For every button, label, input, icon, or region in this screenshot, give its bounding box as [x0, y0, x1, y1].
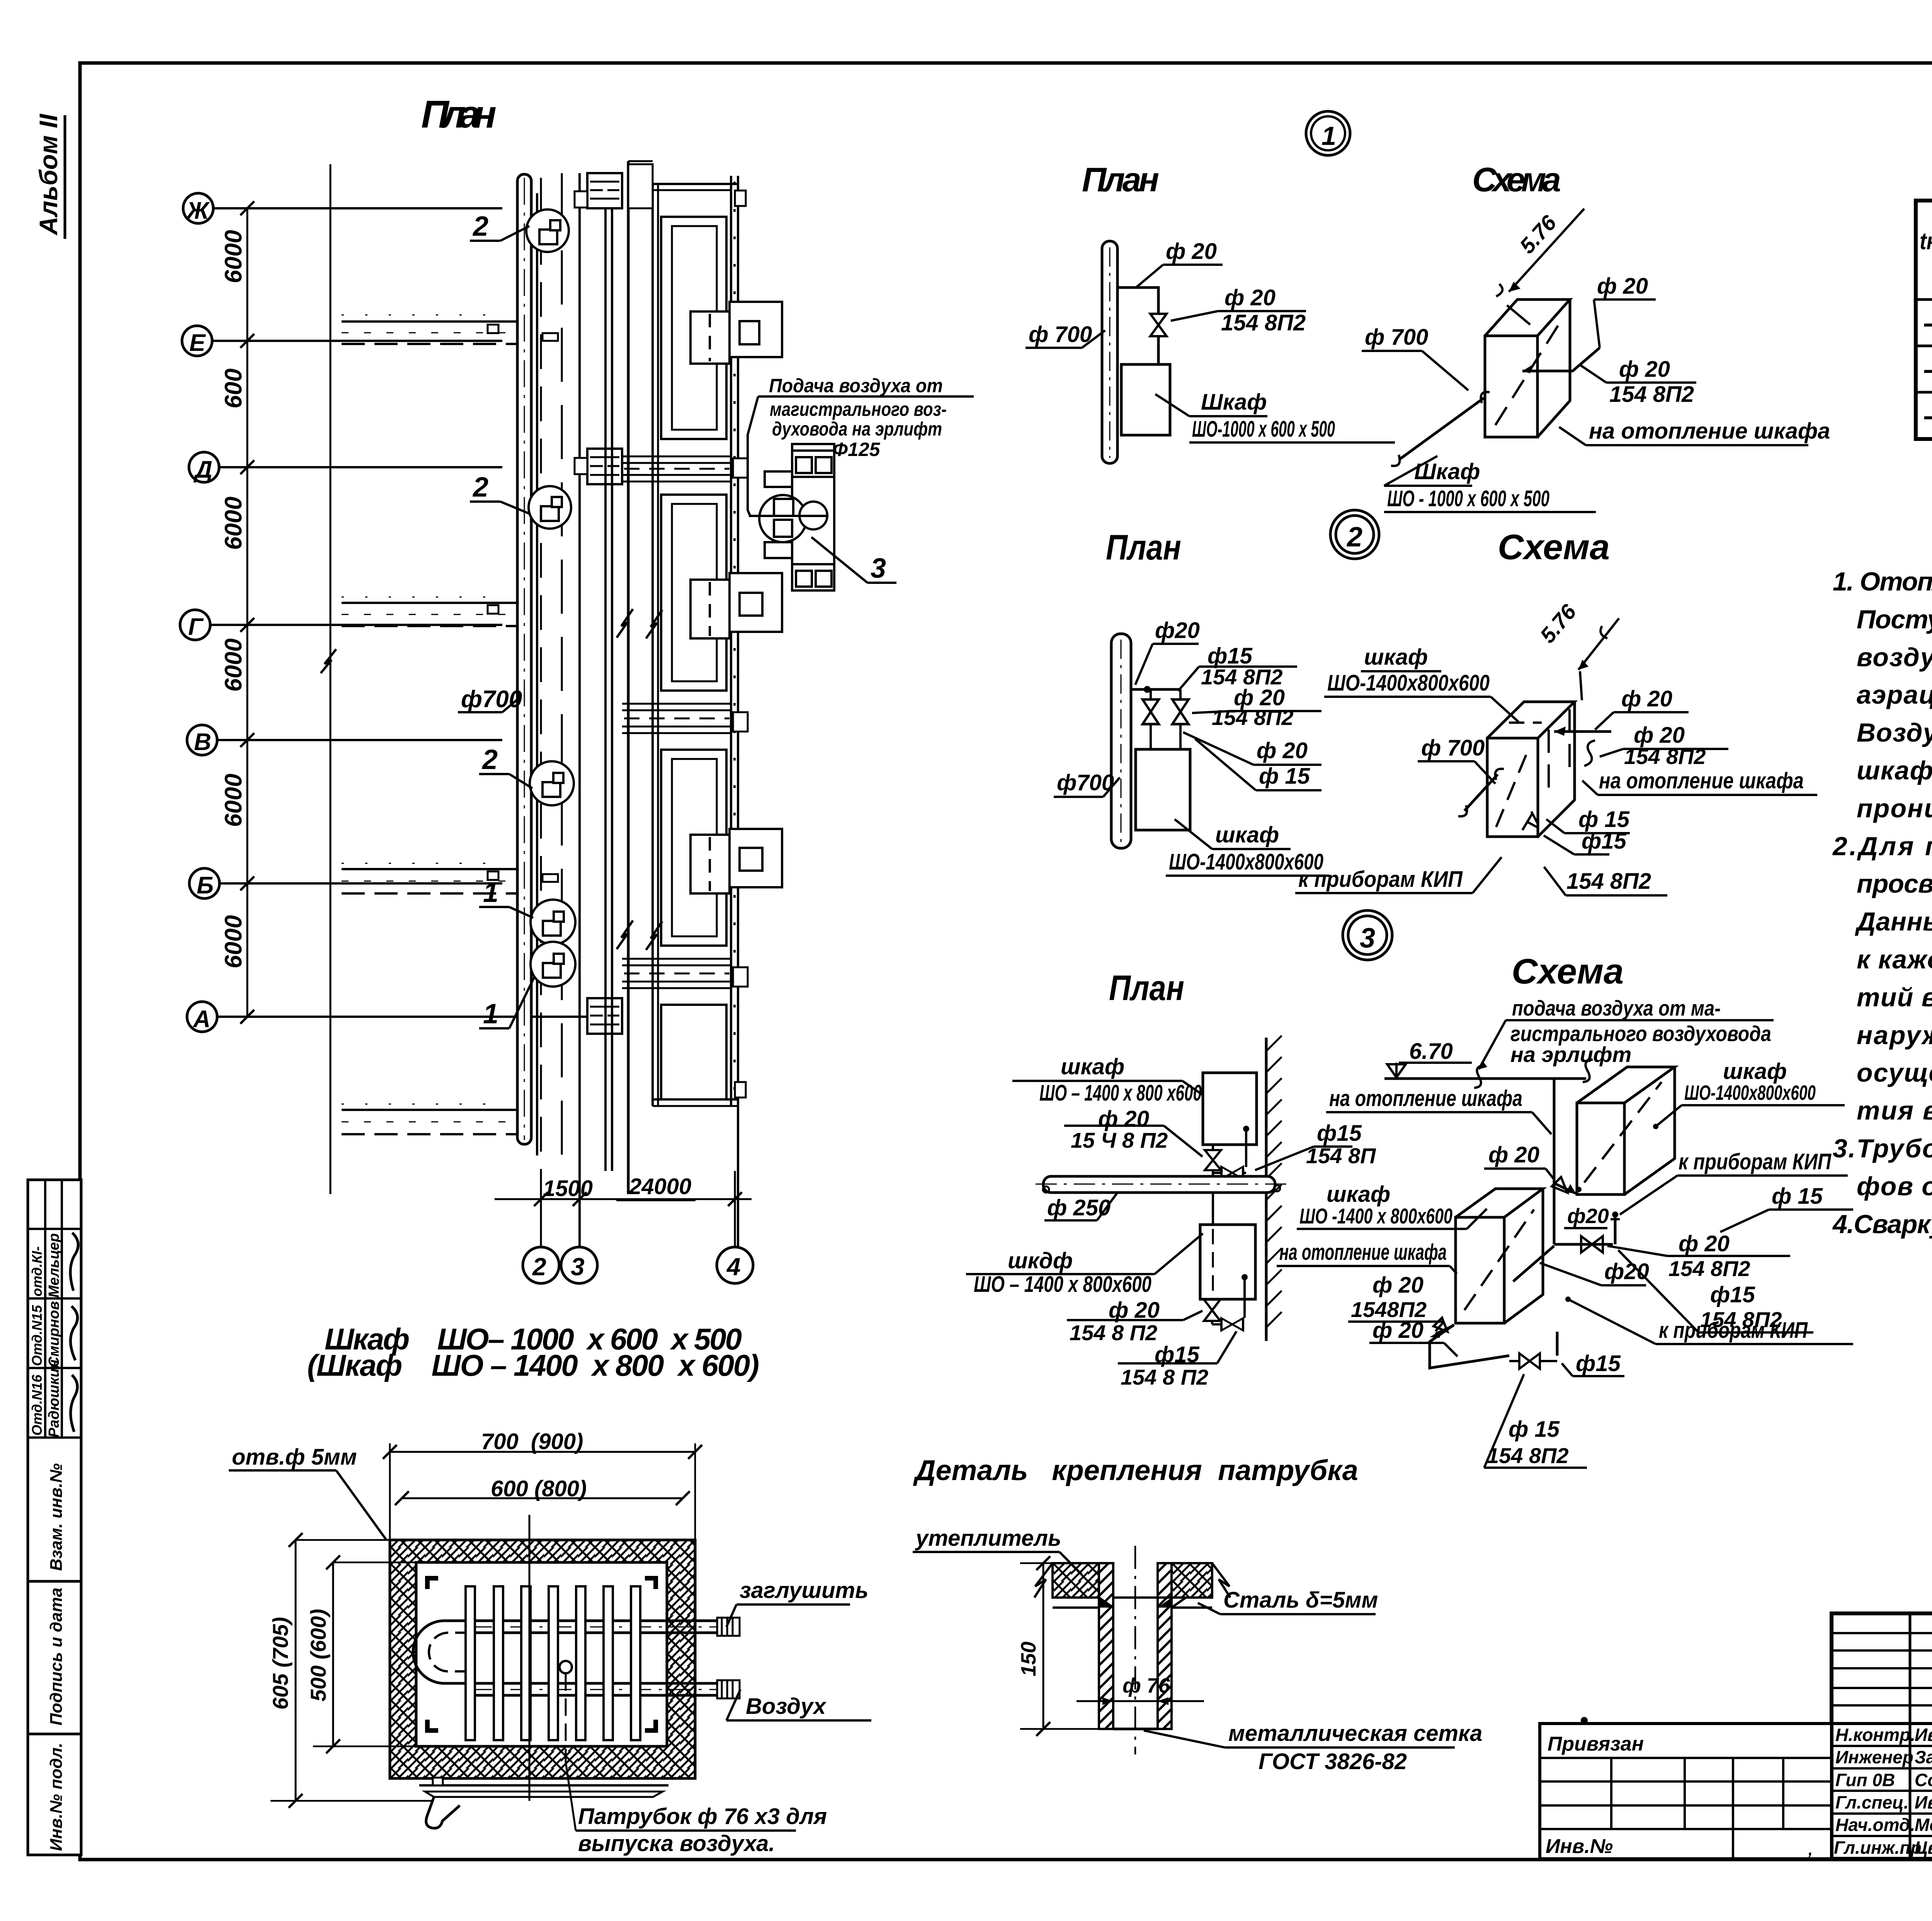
callout circle 2 middle	[529, 486, 571, 529]
svg-text:ф 20: ф 20	[1372, 1273, 1423, 1298]
duct strip hatched box lower	[587, 998, 622, 1034]
svg-text:Подача воздуха от: Подача воздуха от	[769, 375, 943, 396]
svg-text:Данные по количеству воздуха: Данные по количеству воздуха, который сл…	[1855, 907, 1932, 936]
privyazan columns	[1611, 1758, 1783, 1859]
svg-text:к приборам КИП: к приборам КИП	[1679, 1149, 1832, 1174]
svg-text:154 8П2: 154 8П2	[1487, 1443, 1569, 1468]
svg-text:ф15: ф15	[1576, 1351, 1621, 1376]
corridor bottom closure	[653, 1098, 738, 1101]
heater fins	[466, 1586, 640, 1740]
svg-text:ф 20: ф 20	[1225, 285, 1276, 310]
break mark on wall line at 1700	[321, 649, 336, 673]
airlift left tab lower	[765, 542, 792, 558]
svg-text:шкафа подпор, что обеспечив: шкафа подпор, что обеспечивает защиту ар…	[1857, 756, 1932, 785]
big section divider	[1832, 1722, 1932, 1725]
airlift top cell pair	[792, 451, 834, 477]
pipe left wall hatched	[1099, 1563, 1113, 1729]
center axis vertical	[529, 1515, 531, 1801]
axis row Д line	[219, 466, 502, 468]
node1 cabinet	[1121, 364, 1170, 435]
rail band row Б	[342, 863, 520, 893]
svg-text:Б: Б	[197, 872, 214, 899]
small tab rect left of top hatch box	[575, 191, 587, 208]
svg-text:просверлить отверстия ф 5мм: просверлить отверстия ф 5мм.	[1857, 869, 1932, 898]
airlift inner circle	[799, 502, 827, 529]
axis row Д circle	[189, 452, 219, 482]
left part columns	[1909, 1613, 1912, 1859]
svg-text:2: 2	[481, 744, 498, 775]
svg-text:ф 20: ф 20	[1166, 239, 1217, 264]
svg-text:Отд.N16: Отд.N16	[29, 1374, 45, 1436]
slab break zigzag right	[1212, 1563, 1230, 1598]
svg-text:2: 2	[472, 472, 488, 503]
svg-text:шкаф: шкаф	[1364, 645, 1428, 670]
callout circle 1 upper	[531, 900, 575, 944]
svg-text:аэрацию сточных вод.: аэрацию сточных вод.	[1857, 680, 1932, 710]
svg-text:шкаф: шкаф	[1327, 1182, 1390, 1207]
svg-text:осуществляется через патруб: осуществляется через патрубок в дне шкаф…	[1857, 1058, 1932, 1087]
svg-text:В: В	[194, 729, 211, 755]
aeration tank 4 partial	[661, 1005, 726, 1099]
plan3 side bowtie lower	[1211, 1321, 1213, 1324]
thin wall line left vertical	[330, 164, 332, 1194]
privyazan sub-table	[1540, 1724, 1832, 1859]
signature labels column	[1834, 1725, 1932, 1858]
svg-text:ф 15: ф 15	[1509, 1417, 1560, 1442]
svg-text:2: 2	[472, 211, 488, 242]
airlift bottom cells	[792, 564, 834, 590]
dim ticks	[534, 1192, 742, 1206]
svg-text:Молчанов: Молчанов	[1915, 1815, 1932, 1835]
svg-text:ГОСТ 3826-82: ГОСТ 3826-82	[1259, 1749, 1407, 1774]
svg-text:600: 600	[220, 369, 247, 408]
svg-text:тий в конвекторе при разны: тий в конвекторе при разных расчетных те…	[1857, 983, 1932, 1012]
svg-text:700 (900): 700 (900)	[481, 1429, 583, 1454]
svg-text:6000: 6000	[220, 230, 247, 283]
node 1 marker circle	[1306, 111, 1350, 155]
svg-text:Схема: Схема	[1498, 527, 1610, 567]
table outer border	[1916, 201, 1932, 439]
svg-text:Шкаф: Шкаф	[1201, 390, 1267, 415]
svg-text:Подпись и дата: Подпись и дата	[47, 1588, 66, 1725]
duct strip hatched box middle	[587, 449, 622, 484]
dots along right wall	[733, 182, 736, 1105]
schema2 kip barb at box bottom	[1522, 812, 1538, 830]
svg-text:воздуховода секции аэротен: воздуховода секции аэротенка, подающего …	[1857, 643, 1932, 672]
svg-text:24000: 24000	[629, 1174, 691, 1199]
svg-text:Гип 0В: Гип 0В	[1835, 1770, 1895, 1790]
aeration tank 2	[661, 495, 726, 691]
schema2 duct diagonal with breaks	[1464, 774, 1498, 811]
pipe centerline dash-dot	[524, 178, 525, 1140]
svg-text:Смирнов: Смирнов	[46, 1301, 62, 1367]
node2 schema box	[1487, 702, 1575, 837]
svg-text:Соколова: Соколова	[1915, 1770, 1932, 1790]
axis row В line	[217, 739, 502, 741]
svg-text:заглушить: заглушить	[740, 1578, 868, 1603]
svg-text:5.76: 5.76	[1535, 599, 1581, 648]
schema3 box2	[1456, 1189, 1543, 1323]
signature rows	[1832, 1746, 1932, 1836]
attribute table top sub-table rows	[28, 1180, 81, 1438]
callout circle 2 lower (row В)	[530, 761, 574, 805]
axis row Г circle	[180, 610, 210, 640]
slab break zigzag left	[1034, 1563, 1053, 1598]
latch lever	[426, 1797, 460, 1828]
svg-text:154 8 П2: 154 8 П2	[1070, 1320, 1157, 1345]
svg-text:на отопление шкафа: на отопление шкафа	[1279, 1240, 1447, 1265]
privyazan rows	[1540, 1758, 1832, 1829]
bottom axis 4 line	[734, 1171, 736, 1247]
svg-text:ф 15: ф 15	[1259, 764, 1310, 789]
bottom dimension line	[495, 1198, 752, 1200]
svg-text:2: 2	[1346, 522, 1362, 553]
schema3 bottom duct valve	[1519, 1353, 1540, 1369]
svg-text:тия в конвекторе разместит: тия в конвекторе разместить равномерно п…	[1857, 1096, 1932, 1125]
svg-text:отв.ф 5мм: отв.ф 5мм	[232, 1445, 357, 1470]
svg-text:1. Отопление шкафов кип - в: 1. Отопление шкафов кип - воздушное (tвн…	[1833, 567, 1932, 596]
svg-text:Д: Д	[193, 456, 213, 483]
svg-text:отд.КI-: отд.КI-	[29, 1246, 45, 1297]
svg-text:Деталь крепления патрубка: Деталь крепления патрубка	[913, 1454, 1358, 1486]
svg-text:Инв.№: Инв.№	[1546, 1835, 1613, 1858]
svg-text:Иванов: Иванов	[1915, 1725, 1932, 1745]
svg-text:Схема: Схема	[1512, 952, 1624, 991]
node2 valve left	[1150, 689, 1152, 699]
svg-text:выпуска воздуха.: выпуска воздуха.	[578, 1831, 775, 1856]
svg-text:Патрубок ф 76 x3 для: Патрубок ф 76 x3 для	[578, 1804, 827, 1829]
wall long-dash line	[561, 173, 563, 1171]
pipe centerline	[1134, 1546, 1136, 1754]
svg-text:к каждому шкафу для его об: к каждому шкафу для его обогрева, и коли…	[1857, 945, 1932, 974]
svg-text:– 40: – 40	[1923, 306, 1932, 340]
cabinet outer hatched shell	[390, 1540, 695, 1778]
svg-text:1: 1	[1321, 121, 1336, 151]
svg-text:ШО-1000 x 600 x 500: ШО-1000 x 600 x 500	[1192, 417, 1335, 442]
plan3 wall with hatching	[1265, 1038, 1268, 1341]
svg-text:(Шкаф ШО – 1400 x 800 x 6: (Шкаф ШО – 1400 x 800 x 600)	[307, 1348, 759, 1382]
break marks on center walls upper	[617, 609, 633, 638]
phi700 vertical air main pipe	[517, 174, 531, 1144]
vertical dimension chain line	[247, 208, 248, 1017]
node 3 marker circle	[1343, 910, 1392, 960]
title block outer	[1832, 1613, 1932, 1859]
wall line solid near pipe	[536, 193, 538, 1155]
svg-text:утеплитель: утеплитель	[915, 1526, 1061, 1551]
svg-text:ф700: ф700	[1057, 770, 1114, 795]
heater bottom pipe	[471, 1682, 717, 1685]
svg-text:154 8П2: 154 8П2	[1566, 869, 1651, 894]
svg-text:Инженер: Инженер	[1835, 1747, 1913, 1767]
svg-text:154 8 П2: 154 8 П2	[1121, 1365, 1208, 1389]
node2 valve right	[1179, 689, 1182, 699]
svg-text:Радюшкин: Радюшкин	[46, 1360, 62, 1438]
svg-text:к приборам КИП: к приборам КИП	[1298, 867, 1463, 892]
svg-text:Гл.инж.пр.: Гл.инж.пр.	[1834, 1838, 1926, 1858]
svg-text:Альбом II: Альбом II	[34, 113, 63, 236]
svg-text:ф 700: ф 700	[1029, 322, 1092, 347]
svg-text:Воздух, поступающий для от: Воздух, поступающий для отопления, созда…	[1857, 718, 1932, 747]
callout circle 1 lower	[531, 942, 575, 987]
svg-text:ф 20: ф 20	[1621, 686, 1672, 711]
svg-text:ШО – 1400 x 800 x600: ШО – 1400 x 800 x600	[1039, 1080, 1202, 1106]
bracket assembly 2 on right wall	[690, 573, 782, 638]
svg-text:на отопление шкафа: на отопление шкафа	[1599, 768, 1804, 793]
bracket assembly 1 on right wall	[690, 302, 782, 364]
svg-text:План: План	[1106, 528, 1181, 567]
cross band 2	[622, 704, 748, 733]
svg-text:4: 4	[726, 1253, 741, 1281]
svg-text:магистрального воз-: магистрального воз-	[770, 398, 947, 420]
schema1 dashed diagonals	[1495, 321, 1561, 425]
steel plate under slab	[1053, 1598, 1212, 1608]
svg-text:3: 3	[871, 553, 886, 584]
svg-text:,: ,	[1808, 1841, 1813, 1858]
svg-text:5.76: 5.76	[1515, 210, 1561, 258]
svg-text:металлическая сетка: металлическая сетка	[1228, 1721, 1482, 1746]
svg-text:Воздух: Воздух	[746, 1694, 827, 1719]
table row lines	[1916, 255, 1932, 392]
svg-text:на отопление шкафа: на отопление шкафа	[1589, 419, 1830, 444]
heater top pipe	[471, 1620, 717, 1622]
left part top rows	[1832, 1633, 1932, 1705]
threaded pipe tips	[717, 1618, 740, 1698]
plan3 pipe f250	[1043, 1176, 1275, 1193]
svg-text:ф 20: ф 20	[1257, 738, 1308, 763]
svg-text:ф20: ф20	[1155, 618, 1200, 643]
svg-text:ф 20: ф 20	[1597, 274, 1648, 299]
svg-text:ф15: ф15	[1710, 1282, 1755, 1307]
svg-text:6.70: 6.70	[1409, 1039, 1453, 1064]
small tab rect left of middle hatch box	[575, 458, 587, 474]
plan3 valve under cabinet1	[1212, 1145, 1214, 1151]
rail band row Е	[342, 315, 520, 344]
svg-text:шкаф: шкаф	[1061, 1054, 1124, 1079]
rail band row А	[342, 1104, 520, 1134]
svg-text:ШО – 1400 x 800x600: ШО – 1400 x 800x600	[974, 1272, 1151, 1297]
svg-text:ф 700: ф 700	[1365, 325, 1428, 350]
axis row Е circle	[182, 326, 212, 356]
svg-text:Ф125: Ф125	[833, 439, 881, 460]
svg-text:ф15: ф15	[1317, 1121, 1362, 1146]
svg-text:ф 20: ф 20	[1619, 357, 1670, 382]
dim ticks on axis rows	[240, 201, 254, 1024]
pipe right wall hatched	[1158, 1563, 1172, 1729]
second wall pair line a	[604, 208, 607, 1171]
svg-text:Мельцер: Мельцер	[46, 1233, 62, 1298]
svg-text:Г: Г	[188, 614, 204, 640]
aeration tank 3	[661, 750, 726, 946]
signatures squiggles	[70, 1233, 78, 1291]
break marks on center walls lower	[617, 921, 633, 949]
node 2 marker circle	[1330, 510, 1379, 559]
plan3 f15 branch bowtie	[1213, 1172, 1221, 1174]
schema3 box1	[1577, 1067, 1675, 1194]
schema2 dashed diagonal	[1496, 749, 1529, 827]
svg-text:Инв.№ подл.: Инв.№ подл.	[47, 1743, 66, 1851]
axis row А circle	[187, 1002, 217, 1032]
svg-text:ф 700: ф 700	[1421, 735, 1485, 761]
svg-text:А: А	[192, 1006, 211, 1033]
svg-text:ф 20: ф 20	[1679, 1231, 1730, 1256]
svg-text:ШО-1400х800х600: ШО-1400х800х600	[1327, 670, 1490, 696]
axis row Е line	[212, 340, 502, 342]
svg-text:Взам. инв.№: Взам. инв.№	[47, 1463, 66, 1571]
schema3 pipe to box1 bottom	[1554, 1243, 1613, 1246]
svg-text:Е: Е	[189, 330, 206, 356]
svg-text:Привязан: Привязан	[1548, 1733, 1644, 1755]
svg-text:ф15: ф15	[1582, 829, 1627, 854]
bottom axis 2 line	[540, 1171, 542, 1247]
svg-text:605 (705): 605 (705)	[268, 1617, 293, 1710]
heater U tube	[413, 1621, 471, 1683]
cross band 3	[622, 959, 748, 988]
inner corner clips	[425, 1576, 438, 1589]
second wall pair line b	[611, 208, 613, 1171]
svg-text:–30: –30	[1923, 352, 1932, 386]
cross band 1	[622, 456, 748, 482]
svg-text:фов окрасить масляной крас: фов окрасить масляной краской за 2 раза.	[1857, 1172, 1932, 1201]
axis circle 3	[561, 1247, 597, 1283]
schema2 break mark on right face	[1584, 740, 1595, 766]
svg-text:154 8П2: 154 8П2	[1221, 310, 1306, 335]
svg-text:15 Ч 8 П2: 15 Ч 8 П2	[1071, 1128, 1168, 1152]
bottom tray lines	[419, 1784, 668, 1787]
pipe bottom mesh line	[1113, 1728, 1158, 1730]
node2 cabinet	[1136, 749, 1190, 830]
svg-text:Отд.N15: Отд.N15	[29, 1305, 45, 1366]
schema3 diagonal pipe from main to box2	[1513, 1246, 1554, 1281]
svg-text:ШО - 1000 x 600 x 500: ШО - 1000 x 600 x 500	[1387, 486, 1549, 511]
axis row Ж circle	[183, 193, 213, 223]
svg-text:3: 3	[1360, 923, 1375, 954]
svg-text:2: 2	[532, 1253, 546, 1281]
schema3 angle valve on box2 left bottom	[1435, 1325, 1454, 1334]
node1 branch pipe	[1117, 288, 1158, 314]
svg-text:на отопление шкафа: на отопление шкафа	[1329, 1086, 1522, 1111]
svg-text:Поступление воздуха осуществ: Поступление воздуха осуществляется от ма…	[1857, 605, 1932, 634]
svg-text:ф20: ф20	[1567, 1205, 1609, 1228]
head box between walls	[628, 164, 653, 208]
wall solid line (axis 3)	[578, 173, 581, 1247]
svg-text:шкдф: шкдф	[1008, 1248, 1073, 1273]
schema3 angle valve into box1	[1554, 1183, 1576, 1193]
plan3 cabinet2	[1200, 1225, 1255, 1299]
port circle with leader	[560, 1661, 572, 1673]
small tab near row Е	[543, 333, 558, 341]
data row -20	[1923, 398, 1932, 432]
svg-text:–20: –20	[1923, 398, 1932, 432]
node1 schema box	[1485, 299, 1570, 437]
weld triangles	[1099, 1598, 1113, 1608]
axis row А line	[217, 1016, 603, 1018]
svg-text:План: План	[421, 93, 497, 136]
axis row Б line	[219, 882, 502, 885]
svg-text:План: План	[1109, 968, 1184, 1008]
svg-text:Захарова: Захарова	[1915, 1747, 1932, 1767]
svg-text:Иванов: Иванов	[1915, 1792, 1932, 1812]
svg-text:к приборам КИП: к приборам КИП	[1659, 1318, 1808, 1343]
schema3 top pipe line with breaks	[1384, 1077, 1586, 1080]
svg-text:6000: 6000	[220, 774, 247, 827]
svg-text:подача воздуха от ма-: подача воздуха от ма-	[1512, 996, 1721, 1020]
schema1 pipe out right	[1522, 348, 1600, 371]
svg-text:ф 15: ф 15	[1772, 1184, 1823, 1209]
svg-text:ф 20: ф 20	[1372, 1318, 1423, 1343]
bottom axis 3 line	[579, 1171, 581, 1247]
svg-text:2.Для подачи воздуха в шка: 2.Для подачи воздуха в шкаф, в конвектор…	[1832, 832, 1932, 861]
svg-text:проникновения влаги внутрь.: проникновения влаги внутрь.	[1857, 794, 1932, 823]
section divider lines	[28, 1580, 81, 1583]
axis row Ж line	[213, 207, 502, 209]
plan3 valve under cabinet2	[1211, 1299, 1213, 1300]
svg-text:6000: 6000	[220, 497, 247, 550]
svg-text:154 8П2: 154 8П2	[1609, 382, 1694, 407]
center dividing wall	[627, 161, 630, 1194]
svg-text:Н.контр.: Н.контр.	[1835, 1725, 1915, 1745]
axis row В circle	[187, 725, 217, 755]
schema3 bottom duct	[1430, 1325, 1509, 1368]
svg-text:шкаф: шкаф	[1215, 822, 1279, 847]
schema2 inner niche on right face	[1549, 709, 1570, 791]
cabinet inner box	[416, 1562, 667, 1746]
svg-text:6000: 6000	[220, 638, 247, 692]
svg-text:500 (600): 500 (600)	[306, 1609, 330, 1702]
airlift big circle	[759, 495, 806, 542]
album underline	[64, 115, 66, 239]
axis circle 2	[523, 1247, 559, 1283]
callout circle 2 top	[526, 209, 569, 252]
svg-text:ф 20: ф 20	[1488, 1142, 1539, 1167]
axis row Г line	[210, 624, 502, 626]
slab hatched right part	[1172, 1563, 1212, 1598]
schema3 kip stub riser	[1614, 1217, 1617, 1244]
svg-text:ф700: ф700	[461, 686, 522, 713]
airlift pump frame	[792, 444, 834, 590]
svg-text:ф 76: ф 76	[1122, 1674, 1170, 1697]
airlift horizontal axis line	[749, 515, 827, 517]
plan3 cabinet1 port dot	[1243, 1126, 1249, 1132]
plan3 cabinet1	[1203, 1073, 1257, 1145]
svg-text:1500: 1500	[543, 1176, 593, 1201]
node2 riser pipe	[1111, 634, 1131, 848]
axis row Б circle	[189, 868, 219, 898]
schema2 pipe out right	[1554, 730, 1611, 733]
aeration tank 1	[661, 217, 726, 439]
rail band row Г	[342, 597, 520, 626]
small tab near row Б	[543, 874, 558, 882]
right corridor right wall pair	[730, 176, 732, 1106]
svg-text:3.Трубопроводы от магистраль: 3.Трубопроводы от магистрального воздухо…	[1833, 1134, 1932, 1163]
duct strip hatched box top	[587, 173, 622, 208]
svg-text:154 8П2: 154 8П2	[1212, 705, 1294, 730]
wall dashed line (axis 2)	[540, 178, 542, 1247]
svg-text:наружного воздуха сведены: наружного воздуха сведены в таблицу . Вы…	[1857, 1021, 1932, 1050]
svg-text:на эрлифт: на эрлифт	[1510, 1042, 1631, 1067]
svg-text:ШО -1400 x 800x600: ШО -1400 x 800x600	[1299, 1204, 1452, 1228]
svg-text:Цветков: Цветков	[1915, 1838, 1932, 1858]
air feed leader	[748, 396, 758, 516]
plan3 link down	[1212, 1193, 1214, 1225]
svg-text:Схема: Схема	[1472, 160, 1561, 199]
node1 riser pipe	[1102, 241, 1117, 463]
svg-text:Нач.отд.: Нач.отд.	[1835, 1815, 1915, 1835]
data row -30	[1923, 352, 1932, 386]
svg-text:6000: 6000	[220, 915, 247, 968]
air feed underline	[758, 395, 974, 398]
svg-text:150: 150	[1017, 1642, 1040, 1676]
axis circle 4	[717, 1247, 753, 1283]
